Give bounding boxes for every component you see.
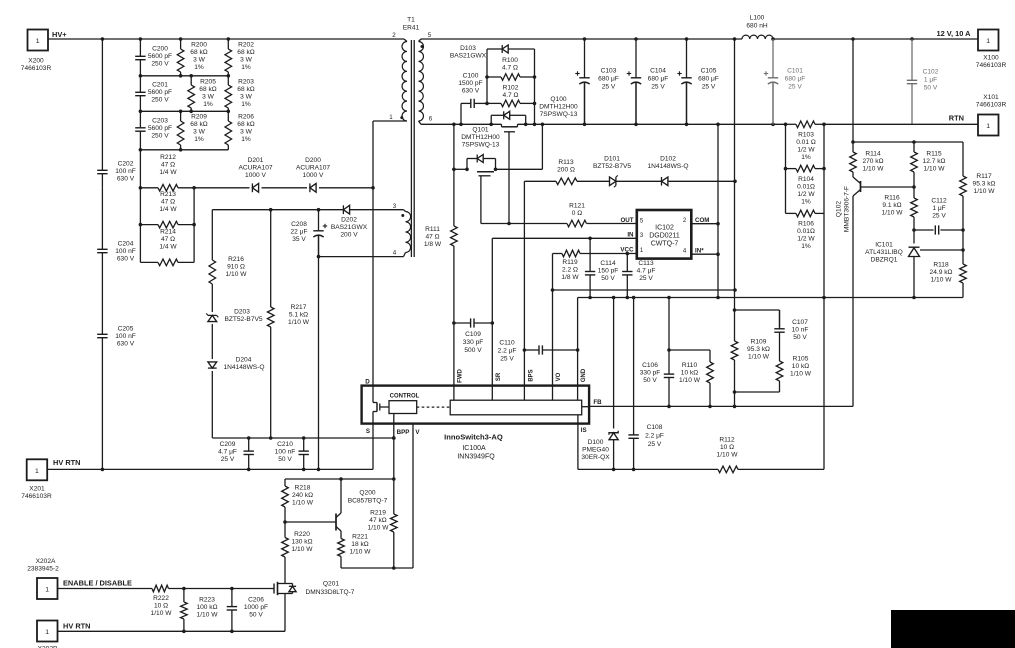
- svg-text:30ER-QX: 30ER-QX: [581, 454, 610, 461]
- svg-text:C205: C205: [118, 326, 134, 333]
- svg-text:CWTQ-7: CWTQ-7: [651, 241, 679, 248]
- svg-text:1/2 W: 1/2 W: [797, 147, 815, 154]
- svg-text:S: S: [366, 428, 370, 435]
- svg-text:1%: 1%: [801, 243, 811, 250]
- svg-text:1/10 W: 1/10 W: [350, 549, 372, 556]
- svg-text:2.2 μF: 2.2 μF: [645, 433, 664, 440]
- svg-text:2.2 μF: 2.2 μF: [498, 348, 517, 355]
- svg-text:5600 pF: 5600 pF: [148, 89, 172, 96]
- svg-text:INN3949FQ: INN3949FQ: [457, 454, 495, 461]
- svg-text:10 Ω: 10 Ω: [720, 444, 734, 451]
- svg-text:R104: R104: [798, 176, 814, 183]
- svg-text:GND: GND: [581, 368, 587, 382]
- svg-text:1/10 W: 1/10 W: [790, 371, 812, 378]
- svg-text:1: 1: [36, 38, 40, 45]
- svg-text:C100: C100: [463, 73, 479, 80]
- svg-text:25 V: 25 V: [702, 84, 716, 91]
- svg-text:1%: 1%: [194, 64, 204, 71]
- svg-text:1 μF: 1 μF: [924, 77, 937, 84]
- svg-text:VO: VO: [556, 372, 562, 381]
- svg-text:InnoSwitch3-AQ: InnoSwitch3-AQ: [444, 432, 503, 441]
- svg-text:0.01Ω: 0.01Ω: [797, 184, 815, 191]
- svg-text:C113: C113: [638, 260, 654, 267]
- svg-text:R202: R202: [238, 42, 254, 49]
- svg-text:150 pF: 150 pF: [598, 268, 619, 275]
- svg-text:7SPSWQ-13: 7SPSWQ-13: [462, 142, 500, 149]
- svg-text:250 V: 250 V: [151, 61, 169, 68]
- svg-text:5: 5: [428, 32, 432, 39]
- svg-text:68 kΩ: 68 kΩ: [199, 86, 216, 93]
- svg-text:C107: C107: [792, 319, 808, 326]
- svg-text:680 μF: 680 μF: [698, 76, 719, 83]
- svg-text:47 Ω: 47 Ω: [161, 236, 175, 243]
- svg-text:1%: 1%: [203, 101, 213, 108]
- svg-text:C114: C114: [600, 260, 616, 267]
- svg-text:1%: 1%: [801, 154, 811, 161]
- svg-text:R111: R111: [425, 226, 440, 233]
- svg-text:1%: 1%: [241, 101, 251, 108]
- svg-text:Q200: Q200: [359, 490, 375, 497]
- svg-text:1/4 W: 1/4 W: [159, 244, 177, 251]
- svg-text:R222: R222: [153, 595, 169, 602]
- svg-text:3: 3: [393, 203, 397, 210]
- svg-text:R116: R116: [884, 195, 900, 202]
- svg-text:3 W: 3 W: [240, 129, 252, 136]
- svg-text:R206: R206: [238, 114, 254, 121]
- svg-text:1000 V: 1000 V: [245, 172, 267, 179]
- svg-text:25 V: 25 V: [788, 84, 802, 91]
- svg-text:3 W: 3 W: [193, 57, 205, 64]
- svg-text:Q201: Q201: [323, 581, 339, 588]
- svg-text:C102: C102: [923, 69, 939, 76]
- svg-text:ATL431LIBQ: ATL431LIBQ: [865, 249, 903, 256]
- svg-text:X101: X101: [983, 94, 999, 101]
- svg-text:R117: R117: [976, 173, 992, 180]
- svg-text:R209: R209: [191, 114, 207, 121]
- svg-text:1%: 1%: [194, 136, 204, 143]
- svg-text:FWD: FWD: [458, 369, 464, 383]
- svg-text:FB: FB: [593, 399, 602, 406]
- svg-text:68 kΩ: 68 kΩ: [237, 49, 254, 56]
- svg-text:R214: R214: [160, 229, 176, 236]
- svg-text:R102: R102: [503, 85, 519, 92]
- svg-text:50 V: 50 V: [249, 612, 263, 619]
- svg-text:1/10 W: 1/10 W: [151, 610, 173, 617]
- svg-text:R220: R220: [294, 531, 310, 538]
- svg-text:6: 6: [429, 116, 433, 123]
- svg-text:ACURA107: ACURA107: [238, 165, 272, 172]
- svg-text:10 kΩ: 10 kΩ: [792, 363, 809, 370]
- svg-text:C112: C112: [931, 198, 947, 205]
- svg-text:2: 2: [392, 32, 396, 39]
- svg-text:IC102: IC102: [655, 225, 674, 232]
- svg-text:50 V: 50 V: [793, 334, 807, 341]
- svg-text:1000 V: 1000 V: [303, 172, 325, 179]
- svg-text:HV RTN: HV RTN: [53, 458, 81, 467]
- svg-text:Q102: Q102: [836, 201, 843, 217]
- svg-text:D200: D200: [305, 157, 321, 164]
- svg-text:1: 1: [986, 38, 990, 45]
- svg-text:R121: R121: [569, 203, 585, 210]
- svg-text:R219: R219: [370, 510, 386, 517]
- svg-text:RTN: RTN: [949, 114, 964, 123]
- svg-text:IN*: IN*: [695, 247, 704, 254]
- svg-text:1%: 1%: [801, 199, 811, 206]
- svg-text:100 nF: 100 nF: [275, 449, 296, 456]
- svg-text:R113: R113: [558, 159, 574, 166]
- svg-text:1N4148WS-Q: 1N4148WS-Q: [223, 364, 264, 371]
- svg-text:R114: R114: [865, 151, 881, 158]
- svg-text:BPP: BPP: [397, 429, 410, 436]
- svg-text:DBZRQ1: DBZRQ1: [871, 257, 898, 264]
- svg-text:DMTH12H00: DMTH12H00: [461, 134, 500, 141]
- svg-text:IC101: IC101: [875, 242, 893, 249]
- svg-text:3 W: 3 W: [202, 94, 214, 101]
- svg-text:1/10 W: 1/10 W: [197, 612, 219, 619]
- svg-text:DGD0211: DGD0211: [649, 233, 680, 240]
- svg-text:ACURA107: ACURA107: [296, 165, 330, 172]
- svg-text:CONTROL: CONTROL: [390, 394, 420, 400]
- svg-text:47 Ω: 47 Ω: [161, 162, 175, 169]
- svg-text:50 V: 50 V: [278, 456, 292, 463]
- svg-text:IS: IS: [581, 427, 587, 434]
- svg-text:X201: X201: [29, 486, 45, 493]
- svg-text:4: 4: [393, 250, 397, 257]
- svg-text:1/10 W: 1/10 W: [974, 188, 996, 195]
- svg-text:1/10 W: 1/10 W: [924, 166, 946, 173]
- svg-text:C106: C106: [642, 362, 658, 369]
- svg-text:630 V: 630 V: [117, 176, 135, 183]
- svg-text:1/2 W: 1/2 W: [797, 191, 815, 198]
- svg-text:SR: SR: [496, 372, 502, 381]
- svg-text:C108: C108: [647, 424, 663, 431]
- svg-text:680 nH: 680 nH: [746, 23, 768, 30]
- svg-text:25 V: 25 V: [639, 275, 653, 282]
- svg-text:C202: C202: [118, 161, 134, 168]
- svg-text:130 kΩ: 130 kΩ: [291, 539, 312, 546]
- svg-text:R110: R110: [682, 362, 698, 369]
- svg-text:R205: R205: [200, 79, 216, 86]
- svg-text:4.7 μF: 4.7 μF: [218, 449, 237, 456]
- svg-text:R109: R109: [751, 339, 767, 346]
- svg-text:3 W: 3 W: [193, 129, 205, 136]
- svg-text:35 V: 35 V: [292, 236, 306, 243]
- svg-text:Q101: Q101: [472, 127, 488, 134]
- svg-text:R223: R223: [199, 597, 215, 604]
- svg-text:270 kΩ: 270 kΩ: [862, 158, 883, 165]
- svg-text:D203: D203: [234, 309, 250, 316]
- svg-text:68 kΩ: 68 kΩ: [190, 49, 207, 56]
- svg-text:0.01 Ω: 0.01 Ω: [796, 139, 816, 146]
- svg-text:1/2 W: 1/2 W: [797, 236, 815, 243]
- svg-text:24.9 kΩ: 24.9 kΩ: [930, 269, 953, 276]
- svg-text:R100: R100: [502, 57, 518, 64]
- svg-text:BZT52-B7V5: BZT52-B7V5: [593, 163, 631, 170]
- svg-text:12.7 kΩ: 12.7 kΩ: [923, 158, 946, 165]
- svg-text:IN: IN: [627, 232, 634, 239]
- svg-text:R112: R112: [719, 437, 735, 444]
- svg-text:0.01Ω: 0.01Ω: [797, 228, 815, 235]
- svg-text:1/10 W: 1/10 W: [226, 271, 248, 278]
- svg-text:L100: L100: [750, 15, 765, 22]
- svg-text:4.7 Ω: 4.7 Ω: [502, 65, 518, 72]
- svg-text:BC857BTQ-7: BC857BTQ-7: [348, 498, 388, 505]
- svg-text:C204: C204: [118, 241, 134, 248]
- svg-text:68 kΩ: 68 kΩ: [237, 121, 254, 128]
- svg-text:R115: R115: [926, 151, 942, 158]
- svg-text:3 W: 3 W: [240, 57, 252, 64]
- svg-text:630 V: 630 V: [462, 88, 480, 95]
- svg-text:18 kΩ: 18 kΩ: [351, 541, 368, 548]
- svg-text:Q100: Q100: [550, 96, 566, 103]
- svg-text:330 pF: 330 pF: [463, 339, 484, 346]
- svg-text:250 V: 250 V: [151, 97, 169, 104]
- svg-text:100 nF: 100 nF: [115, 333, 136, 340]
- svg-text:2.2 Ω: 2.2 Ω: [562, 267, 578, 274]
- svg-text:1/10 W: 1/10 W: [288, 319, 310, 326]
- svg-text:C103: C103: [601, 68, 617, 75]
- svg-text:D101: D101: [604, 156, 620, 163]
- svg-text:C200: C200: [152, 46, 168, 53]
- svg-text:200 Ω: 200 Ω: [557, 167, 575, 174]
- svg-text:1: 1: [986, 123, 990, 130]
- svg-text:7SPSWQ-13: 7SPSWQ-13: [540, 111, 578, 118]
- svg-text:1/4 W: 1/4 W: [159, 169, 177, 176]
- svg-text:0 Ω: 0 Ω: [572, 210, 582, 217]
- svg-text:1/4 W: 1/4 W: [159, 206, 177, 213]
- svg-text:BAS21GWX: BAS21GWX: [450, 53, 487, 60]
- svg-text:7466103R: 7466103R: [21, 65, 52, 72]
- svg-text:9.1 kΩ: 9.1 kΩ: [882, 202, 901, 209]
- svg-text:680 μF: 680 μF: [598, 76, 619, 83]
- svg-text:4.7 Ω: 4.7 Ω: [503, 92, 519, 99]
- svg-text:R217: R217: [291, 304, 307, 311]
- svg-text:1: 1: [45, 629, 49, 636]
- svg-text:ENABLE / DISABLE: ENABLE / DISABLE: [63, 579, 132, 588]
- svg-text:HV+: HV+: [52, 30, 67, 39]
- svg-text:D202: D202: [341, 217, 357, 224]
- svg-text:1/10 W: 1/10 W: [882, 210, 904, 217]
- svg-text:22 μF: 22 μF: [291, 229, 308, 236]
- svg-text:1/10 W: 1/10 W: [748, 354, 770, 361]
- svg-text:D103: D103: [460, 45, 476, 52]
- svg-text:1 μF: 1 μF: [932, 205, 945, 212]
- svg-text:MMBT3906-7-F: MMBT3906-7-F: [844, 186, 851, 232]
- svg-text:PMEG40: PMEG40: [582, 447, 609, 454]
- svg-text:330 pF: 330 pF: [640, 370, 661, 377]
- svg-text:5600 pF: 5600 pF: [148, 53, 172, 60]
- svg-text:250 V: 250 V: [151, 133, 169, 140]
- svg-text:C206: C206: [248, 597, 264, 604]
- svg-text:IC100A: IC100A: [462, 445, 486, 452]
- svg-text:R119: R119: [562, 259, 578, 266]
- svg-text:7466103R: 7466103R: [976, 62, 1007, 69]
- svg-text:D204: D204: [236, 357, 252, 364]
- svg-text:680 μF: 680 μF: [648, 76, 669, 83]
- svg-text:R118: R118: [933, 262, 949, 269]
- svg-text:1: 1: [35, 468, 39, 475]
- svg-text:1: 1: [389, 114, 393, 121]
- svg-text:47 kΩ: 47 kΩ: [369, 517, 386, 524]
- svg-text:1/10 W: 1/10 W: [292, 546, 314, 553]
- svg-text:200 V: 200 V: [340, 232, 358, 239]
- svg-text:DMN33D8LTQ-7: DMN33D8LTQ-7: [306, 589, 355, 596]
- svg-text:5600 pF: 5600 pF: [148, 125, 172, 132]
- svg-text:7466103R: 7466103R: [21, 493, 52, 500]
- svg-text:R221: R221: [352, 534, 368, 541]
- svg-text:500 V: 500 V: [464, 347, 482, 354]
- svg-text:C201: C201: [152, 82, 168, 89]
- svg-text:BZT52-B7V5: BZT52-B7V5: [224, 316, 262, 323]
- svg-text:HV RTN: HV RTN: [63, 622, 91, 631]
- svg-text:1%: 1%: [241, 136, 251, 143]
- svg-text:1500 pF: 1500 pF: [458, 80, 482, 87]
- svg-text:ER41: ER41: [403, 25, 420, 32]
- svg-text:1N4148WS-Q: 1N4148WS-Q: [647, 163, 688, 170]
- svg-text:50 V: 50 V: [643, 377, 657, 384]
- svg-text:X202A: X202A: [36, 558, 56, 565]
- svg-text:95.3 kΩ: 95.3 kΩ: [747, 346, 770, 353]
- svg-text:DMTH12H00: DMTH12H00: [539, 104, 578, 111]
- svg-text:X100: X100: [983, 55, 999, 62]
- svg-text:47 Ω: 47 Ω: [425, 234, 439, 241]
- svg-text:95.3 kΩ: 95.3 kΩ: [973, 181, 996, 188]
- svg-text:C105: C105: [701, 68, 717, 75]
- svg-text:47 Ω: 47 Ω: [161, 199, 175, 206]
- svg-text:BPS: BPS: [529, 369, 535, 381]
- svg-text:C208: C208: [291, 221, 307, 228]
- svg-text:1: 1: [45, 587, 49, 594]
- svg-text:910 Ω: 910 Ω: [227, 264, 245, 271]
- svg-text:BAS21GWX: BAS21GWX: [331, 224, 368, 231]
- svg-text:D100: D100: [588, 439, 604, 446]
- svg-text:4.7 μF: 4.7 μF: [637, 268, 656, 275]
- svg-text:C110: C110: [499, 340, 515, 347]
- svg-text:68 kΩ: 68 kΩ: [190, 121, 207, 128]
- svg-text:25 V: 25 V: [221, 456, 235, 463]
- svg-text:1/10 W: 1/10 W: [717, 452, 739, 459]
- svg-text:D: D: [365, 378, 370, 385]
- svg-text:R103: R103: [798, 132, 814, 139]
- svg-text:10 Ω: 10 Ω: [154, 603, 168, 610]
- svg-text:680 μF: 680 μF: [785, 76, 806, 83]
- svg-text:25 V: 25 V: [651, 84, 665, 91]
- svg-text:10 nF: 10 nF: [792, 327, 809, 334]
- svg-text:C210: C210: [277, 441, 293, 448]
- svg-text:R218: R218: [295, 485, 311, 492]
- svg-text:50 V: 50 V: [924, 85, 938, 92]
- svg-text:X200: X200: [28, 58, 44, 65]
- svg-text:C101: C101: [787, 68, 803, 75]
- svg-text:1/8 W: 1/8 W: [561, 274, 579, 281]
- svg-text:R216: R216: [228, 256, 244, 263]
- svg-text:2383945-2: 2383945-2: [27, 566, 59, 573]
- svg-text:C203: C203: [152, 118, 168, 125]
- svg-text:100 nF: 100 nF: [115, 168, 136, 175]
- svg-text:3 W: 3 W: [240, 94, 252, 101]
- svg-text:D201: D201: [248, 157, 264, 164]
- svg-text:R105: R105: [793, 356, 809, 363]
- svg-text:OUT: OUT: [620, 217, 633, 224]
- svg-text:1/10 W: 1/10 W: [863, 166, 885, 173]
- svg-text:D102: D102: [660, 156, 676, 163]
- svg-text:25 V: 25 V: [500, 356, 514, 363]
- svg-text:25 V: 25 V: [932, 213, 946, 220]
- svg-text:C104: C104: [650, 68, 666, 75]
- svg-text:R200: R200: [191, 42, 207, 49]
- svg-text:100 nF: 100 nF: [115, 248, 136, 255]
- svg-text:1%: 1%: [241, 64, 251, 71]
- svg-text:R203: R203: [238, 79, 254, 86]
- svg-text:1/10 W: 1/10 W: [679, 377, 701, 384]
- svg-text:10 kΩ: 10 kΩ: [681, 370, 698, 377]
- svg-text:630 V: 630 V: [117, 341, 135, 348]
- svg-text:C209: C209: [220, 441, 236, 448]
- svg-text:50 V: 50 V: [601, 275, 615, 282]
- svg-text:12 V, 10 A: 12 V, 10 A: [937, 29, 972, 38]
- svg-text:1/10 W: 1/10 W: [368, 525, 390, 532]
- svg-text:68 kΩ: 68 kΩ: [237, 86, 254, 93]
- svg-text:25 V: 25 V: [648, 441, 662, 448]
- svg-text:1/8 W: 1/8 W: [424, 241, 442, 248]
- svg-text:7466103R: 7466103R: [976, 102, 1007, 109]
- svg-text:1/10 W: 1/10 W: [931, 277, 953, 284]
- svg-text:100 kΩ: 100 kΩ: [196, 604, 217, 611]
- svg-text:25 V: 25 V: [602, 84, 616, 91]
- svg-text:5.1 kΩ: 5.1 kΩ: [289, 312, 308, 319]
- svg-text:T1: T1: [407, 17, 415, 24]
- svg-text:R212: R212: [160, 154, 176, 161]
- svg-text:COM: COM: [695, 217, 709, 224]
- svg-text:R213: R213: [160, 191, 176, 198]
- svg-text:1000 pF: 1000 pF: [244, 604, 268, 611]
- svg-text:240 kΩ: 240 kΩ: [292, 492, 313, 499]
- svg-text:1/10 W: 1/10 W: [292, 500, 314, 507]
- svg-text:R106: R106: [798, 221, 814, 228]
- svg-text:630 V: 630 V: [117, 256, 135, 263]
- svg-text:C109: C109: [465, 331, 481, 338]
